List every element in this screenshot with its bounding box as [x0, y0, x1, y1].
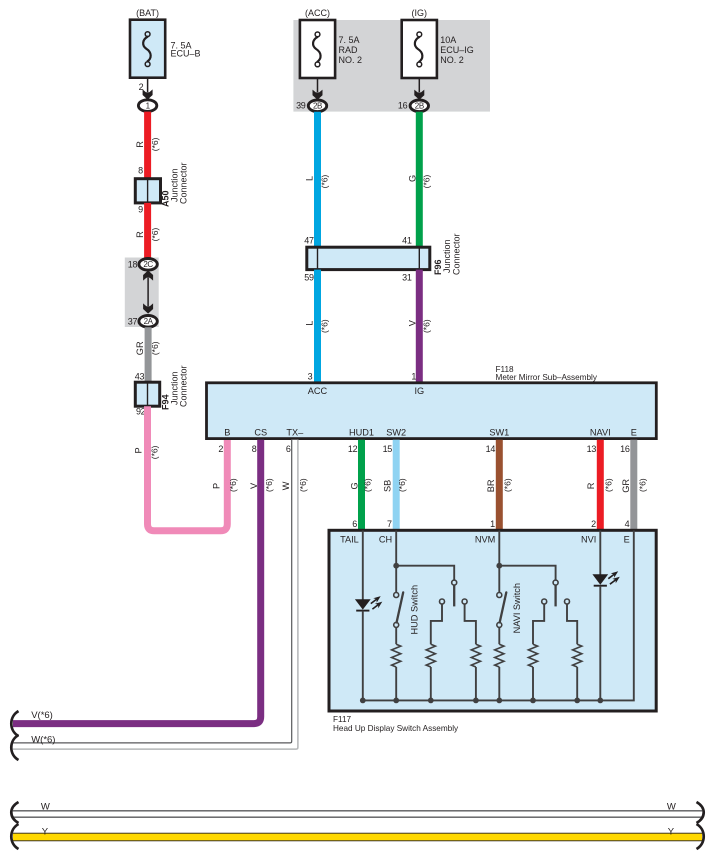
wire Y run (full width) [13, 833, 702, 841]
wire S1 left to R2 [431, 604, 442, 644]
svg-text:ACC: ACC [308, 386, 328, 396]
brace W run left [11, 802, 18, 823]
svg-text:4: 4 [625, 519, 630, 529]
svg-text:(*6): (*6) [422, 319, 432, 333]
wire R (NAVI to NVI) [597, 440, 604, 531]
svg-text:10A: 10A [440, 35, 456, 45]
junction connector F94 box [135, 382, 159, 406]
svg-text:3: 3 [308, 371, 313, 381]
svg-text:B: B [224, 427, 230, 437]
arrow into oval 2B acc [313, 90, 323, 100]
node NVM junction [496, 563, 502, 569]
svg-text:(*6): (*6) [150, 341, 160, 355]
svg-text:R: R [135, 231, 145, 238]
svg-text:V: V [407, 319, 417, 326]
svg-text:HUD1: HUD1 [349, 427, 374, 437]
svg-text:(*6): (*6) [362, 478, 372, 492]
wire GR (E to E) [630, 440, 637, 531]
resistor R6 [573, 644, 582, 667]
rail junction at 600.3 [597, 698, 603, 704]
selector S1 blade [453, 585, 455, 606]
resistor R1 (HUD sw) [392, 644, 401, 667]
svg-text:NAVI Switch: NAVI Switch [512, 583, 522, 633]
svg-text:16: 16 [398, 100, 408, 110]
wire SB (SW2 to CH) [393, 440, 400, 531]
svg-text:(*6): (*6) [150, 137, 160, 151]
svg-text:2: 2 [591, 519, 596, 529]
wire fuse2 to connector [317, 78, 319, 92]
wire BR (SW1 to NVM) [496, 440, 503, 531]
svg-text:R: R [135, 141, 145, 148]
svg-text:P: P [212, 483, 222, 489]
brace Y run left [11, 824, 18, 849]
svg-text:2B: 2B [313, 102, 322, 111]
svg-text:SB: SB [383, 480, 393, 492]
svg-text:TX–: TX– [286, 427, 304, 437]
svg-text:SW2: SW2 [386, 427, 406, 437]
selector S1 common contact [452, 580, 457, 585]
LED D1 (HUD illumination) [355, 599, 371, 609]
ECU F118 box [207, 383, 657, 439]
svg-text:SW1: SW1 [489, 427, 509, 437]
svg-text:(*6): (*6) [397, 478, 407, 492]
fuse RAD NO.2 F2 [300, 20, 335, 78]
junction connector F96 box [307, 247, 430, 269]
junction connector A50 box [135, 179, 160, 203]
resistor R2 [426, 644, 435, 667]
svg-text:NAVI: NAVI [590, 427, 611, 437]
svg-text:8: 8 [138, 166, 143, 176]
svg-text:(*6): (*6) [228, 478, 238, 492]
wire E internal + ground rail [363, 531, 634, 701]
node oval 2A [139, 316, 157, 328]
svg-text:6: 6 [286, 444, 291, 454]
svg-text:W: W [41, 801, 50, 812]
wire G (HUD1 to TAIL) [358, 440, 365, 531]
wire 2C to 2A [147, 278, 149, 306]
svg-text:NO. 2: NO. 2 [440, 55, 464, 65]
svg-text:Y: Y [42, 826, 49, 837]
wire P (F94 to F118 pin B) [148, 406, 228, 531]
svg-text:(*6): (*6) [298, 478, 308, 492]
rail junction at 430.8 [428, 698, 434, 704]
wire L (2B to F96) [314, 112, 321, 248]
selector S1 left contact [440, 599, 445, 604]
wire TAIL to rail [362, 611, 364, 701]
gray harness box (2C/2A in-line) [125, 258, 159, 328]
svg-text:V: V [249, 482, 259, 489]
arrow into oval 1 [143, 89, 153, 99]
svg-text:P: P [134, 447, 144, 453]
svg-text:RAD: RAD [339, 45, 359, 55]
wire R1 to rail [395, 667, 397, 700]
svg-text:13: 13 [587, 444, 597, 454]
svg-text:6: 6 [352, 519, 357, 529]
selector S2 left contact [542, 599, 547, 604]
svg-text:12: 12 [348, 444, 358, 454]
svg-text:(*6): (*6) [264, 478, 274, 492]
svg-text:IG: IG [414, 386, 424, 396]
svg-text:Head Up Display Switch Assembl: Head Up Display Switch Assembly [333, 724, 459, 733]
svg-text:59: 59 [304, 273, 314, 283]
svg-text:Connector: Connector [179, 162, 189, 204]
brace Y run right [697, 824, 704, 849]
svg-text:1: 1 [411, 371, 416, 381]
svg-text:GR: GR [621, 479, 631, 493]
svg-text:L: L [304, 176, 314, 181]
svg-text:W: W [667, 801, 676, 812]
wire R3 to rail [475, 667, 477, 700]
wire HUD switch to resistor [395, 627, 397, 644]
svg-text:2A: 2A [144, 317, 154, 326]
svg-text:9: 9 [138, 205, 143, 215]
wire fuse3 to connector [418, 78, 420, 92]
svg-text:47: 47 [304, 236, 314, 246]
brace W left [11, 735, 18, 760]
wire W run (full width) [13, 810, 702, 812]
svg-text:(*6): (*6) [604, 478, 614, 492]
svg-text:(*6): (*6) [149, 445, 159, 459]
svg-text:L: L [304, 321, 314, 326]
switch assembly F117 box [329, 530, 656, 711]
svg-text:R: R [586, 482, 596, 489]
wire NVM to selector common [499, 566, 555, 581]
wire S2 left to R5 [533, 604, 544, 644]
wire NVI to rail [599, 586, 601, 701]
selector S2 right contact [565, 599, 570, 604]
arrow up into 2C [143, 270, 153, 280]
rail junction at 499.3 [496, 698, 502, 704]
svg-text:7: 7 [387, 519, 392, 529]
svg-text:18: 18 [128, 259, 138, 269]
selector S2 blade [554, 585, 556, 606]
switch SW-HUD (HUD Switch) [394, 593, 399, 598]
svg-text:W(*6): W(*6) [31, 734, 55, 745]
wire NAVI switch to resistor [498, 627, 500, 644]
svg-text:7. 5A: 7. 5A [339, 35, 360, 45]
wire G (2B to F96) [416, 112, 423, 248]
selector S2 common contact [553, 580, 558, 585]
svg-text:TAIL: TAIL [340, 534, 359, 544]
svg-text:Connector: Connector [179, 365, 189, 407]
svg-text:BR: BR [486, 479, 496, 492]
wire R (fuse to A50) [144, 112, 151, 180]
svg-text:Connector: Connector [451, 233, 461, 275]
svg-text:14: 14 [486, 444, 496, 454]
wire GR (2A to F94) [145, 327, 152, 383]
svg-text:43: 43 [135, 371, 145, 381]
svg-text:(IG): (IG) [412, 8, 428, 18]
svg-text:16: 16 [620, 444, 630, 454]
svg-text:41: 41 [402, 236, 412, 246]
rail junction at 533 [530, 698, 536, 704]
svg-text:G: G [407, 175, 417, 182]
svg-text:15: 15 [383, 444, 393, 454]
svg-text:31: 31 [402, 273, 412, 283]
svg-text:1: 1 [490, 519, 495, 529]
wire R2 to rail [430, 667, 432, 700]
resistor R3 [471, 644, 480, 667]
svg-text:CS: CS [254, 427, 267, 437]
wire fuse1 to connector [147, 78, 149, 92]
svg-text:(*6): (*6) [150, 227, 160, 241]
wire R5 to rail [532, 667, 534, 700]
svg-text:39: 39 [296, 100, 306, 110]
svg-text:G: G [350, 482, 360, 489]
svg-text:(*6): (*6) [503, 478, 513, 492]
svg-text:2: 2 [218, 444, 223, 454]
wire L (F96 to F118 ACC) [314, 270, 321, 383]
svg-text:Meter Mirror Sub–Assembly: Meter Mirror Sub–Assembly [496, 373, 598, 382]
wire TAIL internal [362, 531, 364, 600]
wire S2 right to R6 [567, 604, 577, 644]
svg-text:(BAT): (BAT) [136, 8, 159, 18]
svg-text:2C: 2C [143, 260, 153, 269]
svg-text:NVM: NVM [475, 534, 495, 544]
svg-text:CH: CH [379, 534, 392, 544]
rail junction at 475.9 [473, 698, 479, 704]
rail junction at 362.8 [360, 698, 366, 704]
svg-text:(*6): (*6) [637, 478, 647, 492]
node oval 1 (connector 1) [138, 100, 156, 112]
svg-text:(*6): (*6) [422, 174, 432, 188]
wire R6 to rail [576, 667, 578, 700]
wire V (CS to left edge) [13, 440, 261, 724]
svg-text:(ACC): (ACC) [305, 8, 330, 18]
wire NVI internal [599, 531, 601, 575]
LED D2 (NAVI indicator) [592, 574, 608, 584]
wire R4 to rail [498, 667, 500, 700]
svg-text:GR: GR [135, 341, 145, 355]
svg-text:(*6): (*6) [320, 319, 330, 333]
wire R (A50 to 2C) [144, 203, 151, 258]
svg-text:E: E [631, 427, 637, 437]
wire CH internal [395, 531, 397, 593]
svg-text:ECU–IG: ECU–IG [440, 45, 474, 55]
svg-text:Y: Y [668, 826, 675, 837]
resistor R4 (NAVI sw) [495, 644, 504, 667]
arrow into oval 2B ig [414, 90, 424, 100]
gray harness box (ACC/IG fuse block) [293, 20, 490, 112]
brace V left [11, 711, 18, 736]
node oval 2B (IG) [410, 100, 428, 112]
wire W hollow (TX- to left edge) [13, 440, 295, 746]
svg-text:2B: 2B [415, 102, 424, 111]
wire V (F96 to F118 IG) [416, 270, 423, 383]
svg-text:ECU–B: ECU–B [171, 49, 201, 59]
svg-text:8: 8 [252, 444, 257, 454]
brace W run right [697, 802, 704, 823]
svg-text:HUD Switch: HUD Switch [409, 585, 419, 635]
node oval 2B (ACC) [308, 100, 326, 112]
node CH junction [393, 563, 399, 569]
svg-text:NVI: NVI [581, 534, 596, 544]
resistor R5 [528, 644, 537, 667]
rail junction at 396.2 [393, 698, 399, 704]
svg-text:37: 37 [128, 316, 138, 326]
svg-text:(*6): (*6) [320, 174, 330, 188]
svg-text:W: W [281, 481, 291, 490]
svg-text:NO. 2: NO. 2 [339, 55, 363, 65]
selector S1 right contact [462, 599, 467, 604]
switch SW-NAVI (NAVI Switch) [497, 593, 502, 598]
rail junction at 577.2 [574, 698, 580, 704]
wire CH to selector common [396, 566, 454, 581]
svg-text:E: E [624, 534, 630, 544]
fuse ECU-B F1 [130, 20, 165, 78]
wire NVM internal [498, 531, 500, 593]
fuse ECU-IG NO.2 F3 [402, 20, 437, 78]
wire S1 right to R3 [465, 604, 476, 644]
node oval 2C [139, 259, 157, 271]
svg-text:V(*6): V(*6) [31, 710, 53, 721]
